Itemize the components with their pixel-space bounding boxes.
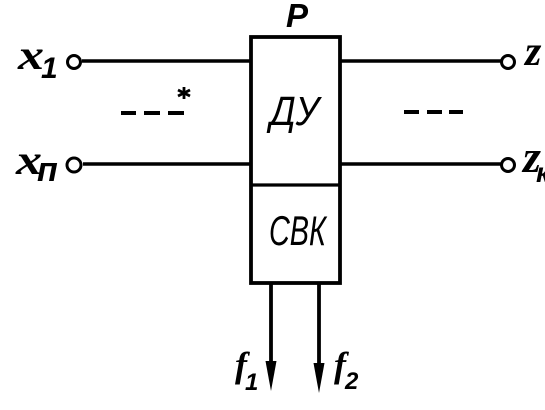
- divider line between ДУ and СВК: [251, 183, 340, 186]
- svg-text:1: 1: [41, 52, 58, 85]
- terminal circle xn: [67, 158, 81, 172]
- terminal circle zk: [502, 159, 515, 172]
- svg-text:к: к: [536, 157, 545, 188]
- svg-text:2: 2: [344, 368, 359, 395]
- svg-text:1: 1: [245, 369, 258, 396]
- terminal circle z1: [502, 56, 515, 69]
- wire block to z1: [340, 59, 501, 63]
- output arrow f2: [314, 283, 325, 393]
- svg-text:Р: Р: [286, 0, 309, 34]
- svg-text:x: x: [17, 33, 44, 79]
- svg-text:СВК: СВК: [269, 207, 328, 254]
- wire block to zk: [340, 162, 501, 166]
- block P outline: [251, 37, 340, 283]
- svg-text:п: п: [37, 151, 58, 189]
- svg-text:ДУ: ДУ: [266, 88, 322, 134]
- ellipsis dashes right: [404, 110, 463, 114]
- asterisk mark: [178, 87, 190, 99]
- output arrow f1: [266, 283, 277, 391]
- terminal circle x1: [68, 56, 81, 69]
- ellipsis dashes left: [121, 111, 184, 115]
- wire xn to block: [83, 162, 251, 166]
- svg-text:z: z: [523, 29, 542, 75]
- wire x1 to block: [82, 59, 251, 63]
